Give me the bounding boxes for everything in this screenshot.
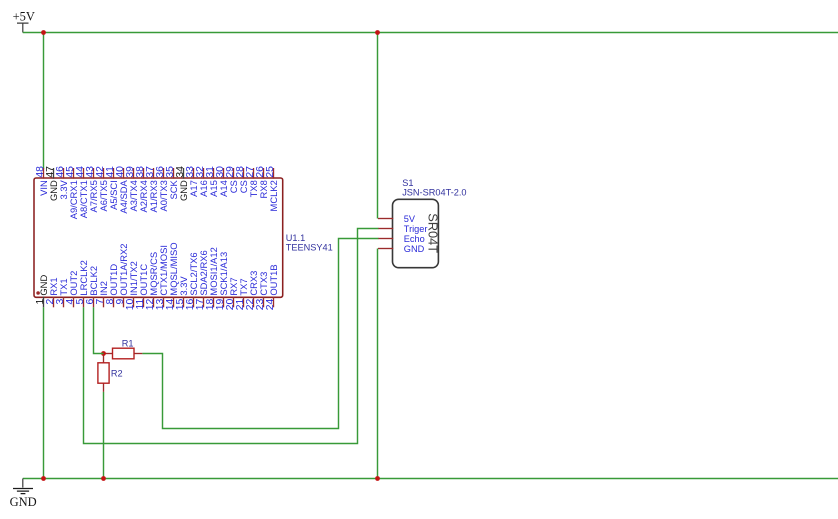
wire GND rail	[23, 478, 838, 480]
pin 43 A7/RX5 (top)	[85, 166, 99, 213]
svg-text:+5V: +5V	[13, 10, 35, 24]
svg-text:R1: R1	[122, 338, 134, 348]
pin 41 A5/SCI (top)	[105, 166, 119, 210]
svg-text:GND: GND	[404, 244, 425, 254]
pin 32 A16 (top)	[195, 166, 209, 197]
junction GND rail / sensor GND	[375, 476, 380, 481]
pin 9 OUT1A/RX2 (bottom)	[115, 243, 129, 307]
svg-text:GND: GND	[10, 495, 37, 509]
pin 13 CTX1/MOSI (bottom)	[155, 245, 169, 310]
wire VIN to +5V rail	[43, 33, 45, 169]
resistor R2	[98, 354, 123, 392]
pin 18 MOSI1/A12 (bottom)	[205, 247, 219, 310]
pin 16 SCL2/TX6 (bottom)	[185, 252, 199, 310]
pin 2 RX1 (bottom)	[45, 277, 59, 307]
pin 25 MCLK2 (top)	[265, 166, 279, 212]
pin 35 SCK (top)	[165, 166, 179, 200]
svg-text:Triger: Triger	[404, 224, 428, 234]
pin 27 TX8 (top)	[245, 166, 259, 198]
svg-text:JSN-SR04T-2.0: JSN-SR04T-2.0	[402, 188, 466, 198]
svg-text:24: 24	[265, 298, 276, 310]
wire pin6 BCLK2 to R1/R2 junction	[94, 307, 104, 353]
pin 8 OUT1D (bottom)	[105, 264, 119, 308]
resistor R1	[104, 338, 143, 358]
svg-text:U1.1: U1.1	[286, 233, 305, 243]
svg-text:5V: 5V	[404, 214, 416, 224]
pin 34 GND (top)	[175, 166, 189, 201]
wire R2 to ground rail	[103, 392, 105, 479]
junction node R1/R2/pin6	[101, 351, 106, 356]
svg-text:SR04T: SR04T	[425, 213, 440, 253]
wire sensor 5V to +5V rail	[377, 33, 379, 219]
svg-text:TEENSY41: TEENSY41	[286, 242, 333, 252]
pin 1 marker dot	[36, 291, 40, 295]
wire sensor GND to ground rail	[377, 249, 379, 479]
junction GND rail / R2	[101, 476, 106, 481]
pin 4 OUT2 (bottom)	[65, 271, 79, 308]
pin 17 SDA2/RX6 (bottom)	[195, 250, 209, 310]
pin 22 CRX3 (bottom)	[245, 271, 259, 311]
pin 3 TX1 (bottom)	[55, 278, 69, 307]
IC U1.1 TEENSY41 microcontroller	[34, 166, 333, 310]
wire R1 to sensor Echo	[142, 239, 378, 429]
pin 48 VIN (top)	[35, 166, 49, 196]
pin 31 A15 (top)	[205, 166, 219, 197]
svg-text:25: 25	[265, 166, 276, 178]
pin 12 MQSR/CS (bottom)	[145, 252, 159, 310]
pin 29 CS (top)	[225, 166, 239, 193]
wire pin1 GND to ground rail	[43, 307, 45, 478]
pin 1 GND (bottom)	[35, 275, 49, 308]
pin 23 CTX3 (bottom)	[255, 272, 269, 311]
pin 30 A14 (top)	[215, 166, 229, 197]
junction GND rail / pin1	[41, 476, 46, 481]
pin 24 OUT1B (bottom)	[265, 264, 279, 310]
pin 11 OUT1C (bottom)	[135, 264, 149, 310]
power symbol +5V	[13, 10, 35, 33]
pin 5 LRCLK2 (bottom)	[75, 260, 89, 307]
pin 44 A8/CTX1 (top)	[75, 166, 89, 218]
pin 15 3.3V (bottom)	[175, 276, 189, 311]
pin Echo of S1	[378, 234, 425, 244]
sensor S1 JSN-SR04T-2.0	[378, 178, 467, 268]
svg-text:R2: R2	[111, 369, 123, 379]
junction +5V rail / VIN	[41, 30, 46, 35]
pin 6 BCLK2 (bottom)	[85, 266, 99, 307]
pin 33 A17 (top)	[185, 166, 199, 197]
svg-text:Echo: Echo	[404, 234, 425, 244]
pin 40 A4/SDA (top)	[115, 166, 129, 214]
pin Triger of S1	[378, 224, 427, 234]
pin 19 SCK1/A13 (bottom)	[215, 252, 229, 310]
svg-text:S1: S1	[402, 178, 413, 188]
pin 42 A6/TX5 (top)	[95, 166, 109, 212]
svg-text:MCLK2: MCLK2	[268, 180, 279, 211]
pin 37 A1/RX3 (top)	[145, 166, 159, 213]
pin 28 CS (top)	[235, 166, 249, 193]
pin 46 3.3V (top)	[55, 166, 69, 200]
svg-text:OUT1B: OUT1B	[268, 264, 279, 295]
pin 21 TX7 (bottom)	[235, 278, 249, 310]
pin 7 IN2 (bottom)	[95, 281, 109, 307]
pin 45 A9/CRX1 (top)	[65, 166, 79, 219]
pin 36 A0/TX3 (top)	[155, 166, 169, 212]
pin 20 RX7 (bottom)	[225, 277, 239, 310]
junction +5V rail / sensor 5V	[375, 30, 380, 35]
pin 14 MQSL/MISO (bottom)	[165, 242, 179, 310]
wire +5V rail	[23, 32, 838, 34]
pin 26 RX8 (top)	[255, 166, 269, 199]
pin 39 A3/TX4 (top)	[125, 166, 139, 212]
chip body	[34, 178, 283, 297]
wire pin5 LRCLK2 to sensor Triger	[84, 229, 379, 444]
pin 47 GND (top)	[45, 166, 59, 201]
pin 38 A2/RX4 (top)	[135, 166, 149, 213]
pin 5V of S1	[378, 214, 416, 224]
pin 10 IN1/TX2 (bottom)	[125, 261, 139, 310]
pin GND of S1	[378, 244, 425, 254]
ground symbol GND	[10, 479, 37, 509]
sensor body	[393, 199, 439, 267]
